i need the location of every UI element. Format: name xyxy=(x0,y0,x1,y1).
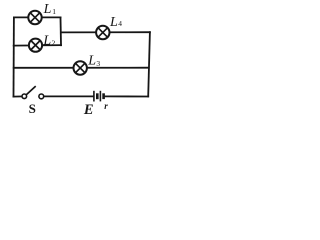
svg-text:L: L xyxy=(43,2,52,17)
switch S xyxy=(22,86,44,99)
lamp L1 xyxy=(28,11,41,24)
svg-text:4: 4 xyxy=(118,19,122,28)
wire L3 branch xyxy=(14,67,149,69)
lamp L2 xyxy=(29,39,42,52)
lamp L4 xyxy=(96,26,109,39)
wire bottom middle segment xyxy=(44,95,94,97)
svg-text:L: L xyxy=(42,34,51,49)
wire bottom right segment xyxy=(104,95,148,97)
wire right rail xyxy=(148,32,150,96)
wire loop right rail xyxy=(60,17,63,45)
wire bottom left segment xyxy=(14,95,23,97)
battery E r xyxy=(94,91,104,102)
svg-text:L: L xyxy=(109,15,118,30)
svg-text:S: S xyxy=(29,101,36,116)
svg-text:1: 1 xyxy=(52,7,56,16)
wire left rail xyxy=(13,17,15,96)
svg-text:r: r xyxy=(104,101,108,111)
lamp L3 xyxy=(74,61,87,74)
svg-text:2: 2 xyxy=(52,39,56,48)
wire L2 branch xyxy=(14,44,61,47)
wire top branch (L1 row) xyxy=(14,16,61,18)
wire L4 branch xyxy=(61,31,150,33)
svg-text:3: 3 xyxy=(96,59,100,68)
svg-text:L: L xyxy=(87,54,96,69)
svg-text:E: E xyxy=(83,102,94,118)
